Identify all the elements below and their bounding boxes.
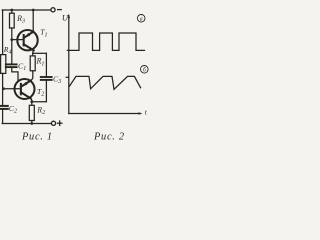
U axis arrowhead: [68, 14, 70, 19]
square wave trace (a): [67, 33, 144, 50]
svg-text:U: U: [62, 13, 69, 22]
transistor T2: [15, 79, 35, 99]
resistor R3: [10, 13, 15, 28]
wire R2 top lead: [31, 102, 33, 106]
wire left rail middle: [2, 73, 4, 105]
node top rail / R3 junction: [10, 9, 13, 12]
node bottom rail / R2: [30, 122, 33, 125]
terminal plus (bottom): [51, 121, 55, 125]
wire left rail lower: [2, 110, 4, 124]
resistor R2: [29, 105, 34, 120]
wire C1 bottom lead: [12, 68, 18, 82]
oscillogram U axis: [68, 16, 70, 114]
T1 emitter arrowhead: [25, 33, 30, 37]
wire R3 top lead: [11, 10, 13, 13]
sawtooth wave trace (b): [69, 76, 140, 89]
capacitor C2: [0, 106, 8, 109]
svg-text:Рис. 2: Рис. 2: [93, 132, 125, 143]
terminal minus (top): [51, 8, 55, 12]
T2 emitter arrowhead: [23, 82, 28, 86]
wire R1 top lead: [32, 53, 34, 56]
wire T2 collector to node: [31, 98, 32, 101]
wire C3 top lead: [45, 53, 47, 76]
circled label b: [141, 66, 149, 74]
wire C3 bottom lead: [45, 81, 47, 102]
wire T2 base: [3, 88, 21, 90]
t axis arrowhead: [138, 112, 142, 114]
node top rail / T1 emitter: [32, 9, 35, 12]
plus sign label: [58, 121, 62, 125]
resistor R4: [1, 55, 6, 74]
wire collector node horizontal: [33, 52, 47, 54]
node left rail / T2 base: [2, 87, 5, 90]
oscillogram t axis: [69, 113, 141, 115]
axis tick (sawtooth peak level): [66, 76, 69, 78]
wire bottom rail: [2, 123, 51, 125]
resistor R1: [30, 56, 35, 71]
wire R3 bottom lead down to C1: [11, 28, 13, 64]
wire top rail: [2, 9, 50, 11]
wire T1 base: [12, 39, 24, 41]
wire left rail upper: [2, 10, 4, 55]
wire R1 bottom lead to T2 emitter: [31, 71, 33, 81]
svg-text:а: а: [140, 16, 143, 22]
node T1 base junction: [10, 38, 13, 41]
node R2 top: [30, 100, 33, 103]
minus sign label: [58, 9, 62, 11]
wire collector node horizontal (bottom): [32, 101, 47, 103]
capacitor C1: [6, 64, 17, 67]
transistor T1: [17, 30, 37, 50]
wire T1 collector to node: [32, 50, 35, 53]
svg-text:Рис. 1: Рис. 1: [21, 132, 53, 143]
circled label a: [137, 14, 145, 22]
wire R2 bottom lead: [31, 121, 33, 124]
capacitor C3: [41, 77, 52, 80]
wire T1 emitter to top rail: [32, 10, 34, 32]
